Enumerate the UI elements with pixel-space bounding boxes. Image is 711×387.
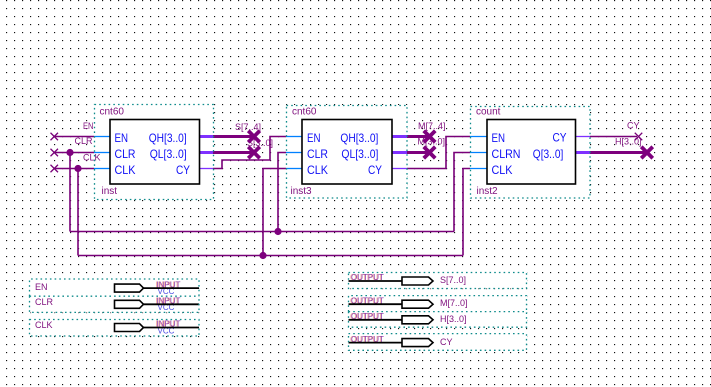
svg-text:CY: CY <box>368 163 382 177</box>
wire CLR riser to U3 <box>454 153 470 232</box>
junction CLR at U1 <box>66 149 73 156</box>
svg-text:CLR: CLR <box>307 147 328 161</box>
svg-text:inst3: inst3 <box>291 186 313 197</box>
node X on EN wire <box>51 133 59 141</box>
pin stub U2 CLR <box>286 152 302 154</box>
svg-text:CLK: CLK <box>307 163 328 177</box>
wire CLR riser to U2 <box>278 153 286 232</box>
output pin M[7..0] <box>349 296 527 312</box>
svg-text:S[7..4]: S[7..4] <box>235 122 261 132</box>
svg-text:M[7..0]: M[7..0] <box>440 298 468 308</box>
svg-text:Q[3..0]: Q[3..0] <box>533 147 564 161</box>
input pin EN <box>30 279 200 296</box>
wire U2.CY to U3.EN <box>407 137 470 169</box>
svg-text:QL[3..0]: QL[3..0] <box>150 147 187 161</box>
wire CLK net into U1 <box>54 168 94 170</box>
symbol white backgrounds <box>94 104 214 200</box>
node X S[3..0] <box>248 147 260 159</box>
wire CLR vertical drop <box>69 153 71 232</box>
pin stub U2 CY <box>392 168 407 170</box>
node X on CLK wire <box>51 165 59 173</box>
junction CLR to U2 <box>274 228 281 235</box>
junction CLK at U1 <box>74 165 81 172</box>
node X S[7..4] <box>248 131 260 143</box>
svg-text:cnt60: cnt60 <box>292 107 317 118</box>
bus S[7..4] <box>213 135 253 138</box>
svg-text:inst: inst <box>102 186 118 197</box>
junction CLK to U2 <box>259 252 266 259</box>
bus M[3..0] <box>407 151 429 154</box>
wire CLR net into U1 <box>54 152 94 154</box>
svg-text:CLR: CLR <box>115 147 136 161</box>
pin stub U3 EN <box>470 136 487 138</box>
pin stub U3 CLRN <box>470 152 487 154</box>
svg-text:H[3..0]: H[3..0] <box>440 314 467 324</box>
svg-text:EN: EN <box>115 131 129 145</box>
svg-text:CLK: CLK <box>492 163 513 177</box>
bus stub U1 QL[3..0] <box>199 151 213 154</box>
svg-text:EN: EN <box>492 131 506 145</box>
bus M[7..4] <box>407 135 429 138</box>
svg-text:CLR: CLR <box>35 297 54 307</box>
wire U3.CY output <box>590 136 637 138</box>
svg-text:CLRN: CLRN <box>492 147 521 161</box>
block U2 cnt60 inst3 <box>287 106 408 199</box>
pin stub U2 CLK <box>286 168 302 170</box>
bold X bus terminators <box>248 131 653 159</box>
svg-text:QH[3..0]: QH[3..0] <box>149 131 187 145</box>
block U3 count inst2 <box>471 107 591 199</box>
svg-text:EN: EN <box>307 131 321 145</box>
bus stub U2 QL[3..0] <box>392 151 407 154</box>
bus stub U3 Q[3..0] <box>575 151 590 154</box>
svg-text:CY: CY <box>553 131 567 145</box>
bus stub U1 QH[3..0] <box>199 135 213 138</box>
output pin H[3..0] <box>349 312 527 328</box>
junction dots <box>66 149 281 259</box>
svg-text:count: count <box>476 107 501 118</box>
svg-text:cnt60: cnt60 <box>100 107 125 118</box>
node X on CLR wire <box>51 149 59 157</box>
wire CLK riser to U3 <box>463 169 470 256</box>
svg-text:CLK: CLK <box>115 163 136 177</box>
node X H[3..0] <box>641 147 653 159</box>
svg-text:CLK: CLK <box>35 320 53 330</box>
node X M[7..4] <box>424 131 436 143</box>
svg-text:QL[3..0]: QL[3..0] <box>341 147 378 161</box>
pin stub U3 CLK <box>470 168 487 170</box>
bus stub U2 QH[3..0] <box>392 135 407 138</box>
svg-text:CY: CY <box>627 121 640 131</box>
pin stub U1 CLR <box>94 152 110 154</box>
pin stub U1 CY <box>199 168 213 170</box>
dangling-wire X marks (thin) <box>51 133 643 173</box>
pin stub U1 EN <box>94 136 110 138</box>
wire U1.CY to U2.EN <box>213 137 286 169</box>
svg-text:M[7..4]: M[7..4] <box>418 121 446 131</box>
svg-text:EN: EN <box>35 282 48 292</box>
svg-text:CLK: CLK <box>83 152 101 162</box>
svg-text:inst2: inst2 <box>477 186 499 197</box>
pin stub U2 EN <box>286 136 302 138</box>
pin stub U1 CLK <box>94 168 110 170</box>
wire CLK vertical drop <box>77 169 79 256</box>
node X on CY output wire <box>635 133 643 141</box>
svg-text:CY: CY <box>176 163 190 177</box>
wire CLK horizontal run <box>78 255 463 257</box>
svg-text:S[7..0]: S[7..0] <box>440 275 466 285</box>
wire CLK riser to U2 <box>263 169 286 256</box>
node X M[3..0] <box>424 147 436 159</box>
output pin CY <box>349 334 527 351</box>
bus S[3..0] <box>213 151 253 154</box>
wire EN net into U1 <box>54 136 94 138</box>
input pin CLK <box>30 320 200 337</box>
svg-text:CY: CY <box>440 337 453 347</box>
pin stub U3 CY <box>575 136 590 138</box>
block U1 cnt60 inst <box>95 105 214 200</box>
output pin S[7..0] <box>349 273 527 289</box>
wire CLR horizontal run <box>70 231 454 233</box>
svg-text:QH[3..0]: QH[3..0] <box>340 131 378 145</box>
input pin CLR <box>30 296 200 312</box>
bus H[3..0] <box>590 151 647 154</box>
svg-text:EN: EN <box>83 121 94 131</box>
